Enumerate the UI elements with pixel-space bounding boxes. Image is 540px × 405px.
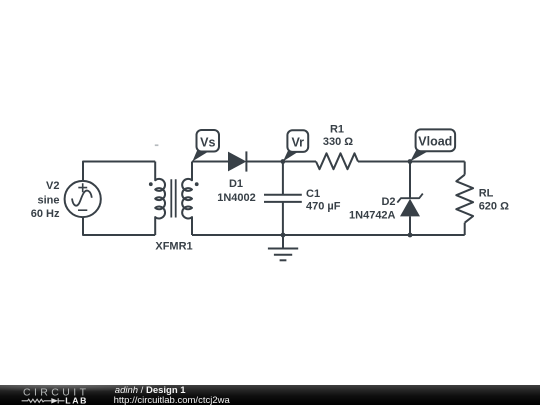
wire: R1 to node Vload bbox=[358, 161, 465, 163]
svg-text:LAB: LAB bbox=[65, 395, 88, 405]
polarity dot primary bbox=[149, 182, 153, 186]
svg-text:Vr: Vr bbox=[292, 136, 305, 150]
zener diode D2 bbox=[397, 194, 423, 217]
node dot ground rail bbox=[281, 233, 286, 238]
node dot Vr bbox=[281, 159, 286, 164]
wire: bottom rail bbox=[192, 234, 465, 236]
primary winding bbox=[155, 162, 165, 236]
wire: left loop bottom bbox=[83, 217, 155, 236]
flag Vload bbox=[410, 129, 455, 161]
node dot Vload bbox=[408, 159, 413, 164]
logo resistor squiggle and diode bar wire bbox=[22, 398, 65, 403]
wire: RL to bottom rail bbox=[464, 223, 466, 235]
wire: secondary to D1 bbox=[192, 161, 228, 163]
svg-text:C1: C1 bbox=[306, 188, 320, 200]
svg-text:Vload: Vload bbox=[418, 135, 452, 149]
svg-text:330 Ω: 330 Ω bbox=[323, 136, 353, 148]
polarity dot secondary bbox=[195, 182, 199, 186]
voltage source V2 bbox=[65, 181, 101, 217]
footer text: author / design bbox=[115, 386, 186, 396]
node dot zener bottom bbox=[408, 233, 413, 238]
core bbox=[171, 179, 175, 217]
svg-text:D1: D1 bbox=[229, 178, 243, 190]
svg-text:XFMR1: XFMR1 bbox=[155, 241, 192, 253]
footer text: url bbox=[114, 396, 230, 405]
svg-text:620 Ω: 620 Ω bbox=[479, 201, 509, 213]
svg-text:RL: RL bbox=[479, 188, 494, 200]
footer bar bbox=[0, 385, 540, 405]
transformer XFMR1 bbox=[149, 162, 199, 236]
svg-text:V2: V2 bbox=[46, 180, 59, 192]
svg-text:1N4742A: 1N4742A bbox=[349, 209, 396, 221]
flag Vr bbox=[283, 130, 308, 161]
wire: C1 to bottom rail bbox=[282, 202, 284, 235]
diode D1 bbox=[228, 151, 246, 171]
svg-text:sine: sine bbox=[37, 194, 59, 206]
svg-text:D2: D2 bbox=[381, 196, 395, 208]
svg-text:Vs: Vs bbox=[200, 135, 215, 149]
logo CIRCUIT LAB bbox=[0, 385, 110, 405]
resistor RL bbox=[456, 175, 473, 223]
ground bbox=[268, 235, 298, 260]
capacitor C1 bbox=[264, 195, 302, 202]
wire: D1 to node Vr bbox=[246, 161, 316, 163]
svg-text:60 Hz: 60 Hz bbox=[31, 208, 60, 220]
wire: left loop top bbox=[83, 162, 155, 182]
svg-text:R1: R1 bbox=[330, 124, 344, 136]
resistor R1 bbox=[316, 153, 358, 169]
wire: node Vr down to C1 bbox=[282, 162, 284, 195]
svg-text:1N4002: 1N4002 bbox=[217, 192, 256, 204]
flag Vs bbox=[192, 130, 219, 161]
artifact dash bbox=[155, 144, 159, 146]
secondary winding bbox=[182, 162, 192, 236]
logo diode triangle bbox=[51, 398, 58, 403]
svg-text:470 µF: 470 µF bbox=[306, 201, 341, 213]
wire: zener branch bbox=[409, 162, 411, 236]
wire: right branch down to RL bbox=[464, 162, 466, 175]
